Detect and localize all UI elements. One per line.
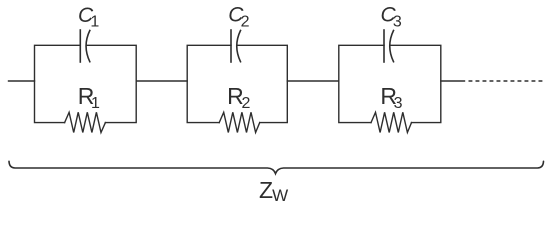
wire: section 2 left branch: [187, 45, 231, 122]
wire: output lead (solid): [441, 80, 465, 82]
svg-text:R3: R3: [380, 83, 402, 112]
wire: section 2 right branch: [238, 45, 288, 122]
capacitor C2: [231, 30, 241, 62]
wire: input lead: [9, 80, 35, 82]
capacitor C1: [80, 30, 90, 62]
svg-text:C3: C3: [381, 3, 402, 30]
svg-text:R2: R2: [227, 83, 250, 112]
resistor R1: [65, 112, 106, 132]
wire: section 1 left branch: [35, 45, 81, 122]
resistor R2: [219, 112, 260, 132]
svg-text:ZW: ZW: [259, 177, 288, 205]
wire: section 1 right branch: [87, 45, 136, 122]
svg-text:C2: C2: [228, 3, 249, 30]
wire: section 3 left branch: [339, 45, 384, 122]
wire: continuation (dashed): [469, 80, 546, 82]
wire: link section1-section2: [136, 80, 187, 82]
svg-text:R1: R1: [78, 83, 100, 112]
svg-text:C1: C1: [78, 4, 99, 31]
capacitor C3: [384, 30, 394, 62]
wire: link section2-section3: [287, 80, 339, 82]
resistor R3: [371, 112, 412, 132]
brace: Z_W extent: [9, 161, 544, 173]
wire: section 3 right branch: [391, 45, 441, 122]
